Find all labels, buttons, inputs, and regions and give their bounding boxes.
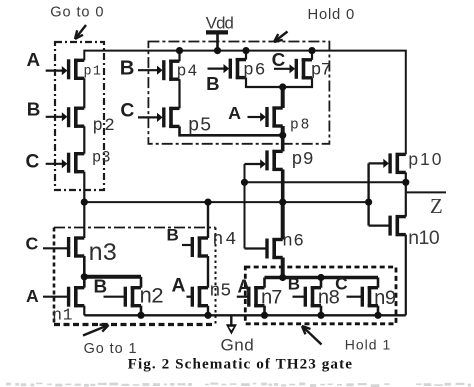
svg-text:Hold 0: Hold 0 [307, 7, 355, 23]
svg-text:A: A [228, 103, 241, 123]
svg-text:C: C [272, 49, 286, 70]
svg-text:A: A [172, 276, 186, 297]
svg-text:C: C [26, 151, 40, 172]
svg-text:Fig. 2 Schematic of TH23 gate: Fig. 2 Schematic of TH23 gate [128, 357, 353, 373]
svg-text:p3: p3 [92, 148, 111, 166]
svg-text:Z: Z [430, 195, 443, 218]
svg-text:Vdd: Vdd [206, 13, 234, 32]
svg-text:B: B [206, 73, 219, 94]
svg-text:n9: n9 [374, 288, 396, 311]
svg-text:n3: n3 [88, 239, 116, 268]
svg-text:p7: p7 [311, 61, 331, 81]
svg-text:n5: n5 [210, 282, 232, 302]
svg-text:A: A [27, 49, 41, 70]
svg-text:n2: n2 [139, 284, 163, 309]
svg-text:Gnd: Gnd [221, 336, 255, 355]
svg-text:n7: n7 [261, 288, 282, 311]
svg-text:Hold 1: Hold 1 [345, 337, 392, 353]
svg-text:n1: n1 [52, 307, 73, 325]
svg-text:B: B [27, 98, 41, 119]
svg-text:p1: p1 [83, 65, 102, 80]
svg-text:n6: n6 [282, 231, 304, 251]
svg-text:B: B [288, 274, 300, 293]
svg-text:n10: n10 [408, 227, 440, 249]
svg-text:A: A [26, 286, 39, 306]
svg-text:p9: p9 [291, 150, 314, 170]
svg-text:C: C [26, 234, 39, 254]
svg-text:n4: n4 [212, 230, 238, 250]
svg-text:B: B [167, 225, 179, 244]
svg-text:p5: p5 [188, 114, 212, 136]
svg-text:B: B [120, 58, 135, 80]
svg-text:p2: p2 [92, 117, 116, 136]
svg-text:p4: p4 [177, 61, 199, 80]
svg-text:p6: p6 [243, 61, 266, 81]
svg-text:n8: n8 [317, 288, 339, 311]
svg-text:B: B [93, 276, 107, 297]
svg-text:Go to 1: Go to 1 [84, 341, 138, 357]
svg-text:A: A [238, 277, 251, 297]
svg-text:Go to 0: Go to 0 [50, 5, 104, 21]
svg-text:p8: p8 [290, 117, 311, 133]
svg-text:p10: p10 [408, 149, 443, 169]
svg-text:C: C [120, 100, 134, 121]
